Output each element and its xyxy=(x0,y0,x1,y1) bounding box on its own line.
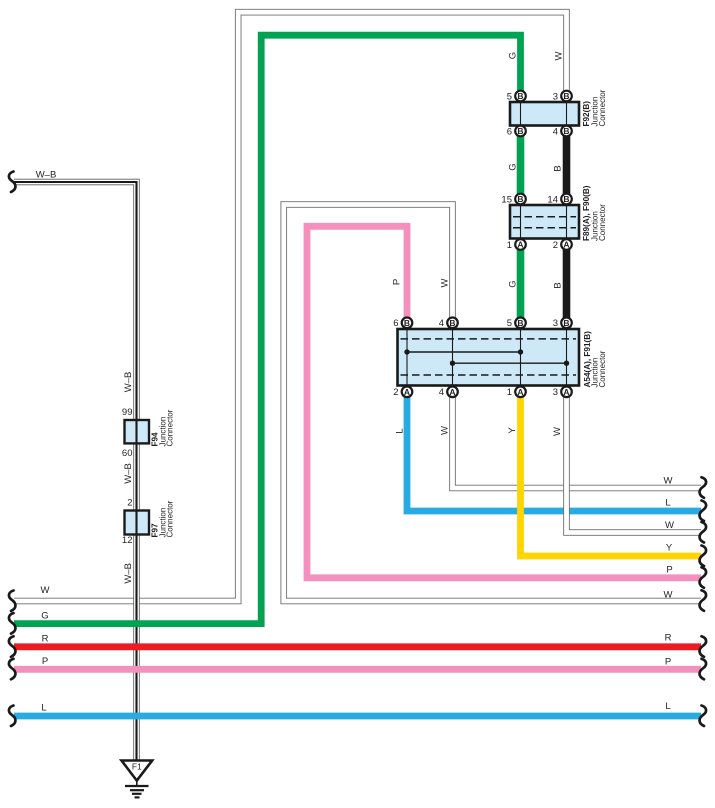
svg-text:W: W xyxy=(554,51,565,60)
break symbol L right 2 xyxy=(700,706,707,727)
svg-text:R: R xyxy=(42,634,49,645)
svg-text:L: L xyxy=(395,428,406,433)
svg-text:W: W xyxy=(440,426,451,435)
svg-text:B: B xyxy=(517,194,523,204)
svg-text:4: 4 xyxy=(553,126,558,137)
junction connector A54(A), F91(B) box xyxy=(398,323,580,392)
svg-text:L: L xyxy=(665,701,670,712)
svg-text:G: G xyxy=(508,163,519,170)
wire W-B white-black: left edge to F1 ground (gray outline + white core) xyxy=(14,182,137,760)
svg-text:L: L xyxy=(41,703,46,714)
svg-text:Connector: Connector xyxy=(598,204,607,241)
svg-text:12: 12 xyxy=(122,535,133,546)
svg-text:B: B xyxy=(449,318,455,328)
wire L blue: left edge to right edge xyxy=(14,713,701,720)
svg-text:2: 2 xyxy=(553,240,558,251)
svg-text:W: W xyxy=(664,590,673,601)
svg-text:W: W xyxy=(41,585,50,596)
F92 pin 5(B) xyxy=(507,91,526,103)
A54 pin 3(B) xyxy=(553,318,572,330)
label F97 Junction Connector xyxy=(151,500,175,537)
wire P pink: left edge to right edge xyxy=(14,666,701,673)
svg-text:B: B xyxy=(553,165,564,171)
svg-text:P: P xyxy=(392,279,403,285)
svg-text:G: G xyxy=(508,52,519,59)
svg-text:Y: Y xyxy=(666,543,673,554)
A54 pin 1(A) xyxy=(507,387,526,399)
svg-text:R: R xyxy=(665,633,672,644)
svg-text:G: G xyxy=(508,280,519,287)
svg-text:B: B xyxy=(517,91,523,101)
svg-text:W–B: W–B xyxy=(123,372,134,393)
wire R red: left edge to right edge xyxy=(14,643,701,650)
F92 pin 3(B) xyxy=(553,91,572,103)
svg-text:4: 4 xyxy=(439,318,444,329)
svg-text:A: A xyxy=(449,387,455,397)
wire B black: F92 pin 4(B) to F89 pin 14(B) xyxy=(563,131,571,199)
svg-text:B: B xyxy=(563,194,569,204)
wire G green: F89 pin 1(A) to A54 pin 5(B) xyxy=(517,245,525,323)
svg-text:99: 99 xyxy=(122,407,133,418)
wire W white: A54 pin 4(A) down, right to right edge xyxy=(453,392,702,488)
svg-text:B: B xyxy=(563,91,569,101)
ground F1 xyxy=(122,761,153,798)
label A54(A), F91(B) Junction Connector xyxy=(583,331,607,388)
svg-text:2: 2 xyxy=(127,498,132,509)
F89 pin 1(A) xyxy=(507,239,526,251)
break symbol P left xyxy=(9,659,16,680)
svg-text:A: A xyxy=(563,387,569,397)
wire G green: left edge, up, across top, down to F92 pin 5(B) xyxy=(14,35,521,623)
svg-text:Connector: Connector xyxy=(166,500,175,537)
F89 pin 15(B) xyxy=(501,194,525,206)
break symbol L left xyxy=(9,706,16,727)
svg-text:W: W xyxy=(664,476,673,487)
F92 pin 4(B) xyxy=(553,126,572,138)
svg-text:W: W xyxy=(665,520,674,531)
wire W white: from A54 pin 4(B) up, left, down, to right edge xyxy=(284,205,701,602)
label F89(A), F90(B) Junction Connector xyxy=(582,185,607,241)
wire B black: F89 pin 2(A) to A54 pin 3(B) xyxy=(563,245,571,323)
svg-text:Connector: Connector xyxy=(166,409,175,446)
wire W white: A54 pin 3(A) down, right to right edge xyxy=(567,392,702,533)
F92 pin 6(B) xyxy=(507,126,526,138)
svg-text:B: B xyxy=(404,318,410,328)
break symbol Y right xyxy=(700,546,707,567)
svg-text:G: G xyxy=(41,611,48,622)
label F94 Junction Connector xyxy=(151,409,175,446)
svg-text:W–B: W–B xyxy=(123,563,134,584)
svg-text:2: 2 xyxy=(393,387,398,398)
svg-text:3: 3 xyxy=(553,387,558,398)
wire W-B black stripe xyxy=(14,182,137,760)
svg-text:1: 1 xyxy=(507,240,512,251)
svg-text:B: B xyxy=(553,282,564,288)
svg-text:3: 3 xyxy=(553,91,558,102)
svg-text:A: A xyxy=(404,387,410,397)
svg-text:A: A xyxy=(517,387,523,397)
break symbol L right xyxy=(700,501,707,522)
svg-text:3: 3 xyxy=(553,318,558,329)
F89 pin 2(A) xyxy=(553,239,572,251)
break symbol W right 1 xyxy=(700,477,707,498)
svg-text:1: 1 xyxy=(507,387,512,398)
svg-text:W–B: W–B xyxy=(36,170,57,181)
label F92(B) Junction Connector xyxy=(582,89,607,126)
wire L blue: A54 pin 2(A) down, right to right edge xyxy=(407,392,701,511)
svg-text:P: P xyxy=(665,657,671,668)
svg-text:A: A xyxy=(563,240,569,250)
svg-text:14: 14 xyxy=(547,194,558,205)
junction connector F89(A), F90(B) box xyxy=(510,199,579,245)
svg-text:5: 5 xyxy=(507,91,512,102)
wire Y yellow: A54 pin 1(A) down, right to right edge xyxy=(521,392,702,556)
svg-text:B: B xyxy=(563,318,569,328)
junction connector F97 box xyxy=(125,511,150,535)
svg-text:L: L xyxy=(665,498,670,509)
wire W white: left edge to top to F92 pin 3(B) xyxy=(14,12,567,601)
svg-text:60: 60 xyxy=(122,448,133,459)
A54 pin 4(A) xyxy=(439,387,458,399)
svg-text:B: B xyxy=(517,318,523,328)
break symbol R left xyxy=(9,636,16,657)
A54 pin 3(A) xyxy=(553,387,572,399)
svg-text:B: B xyxy=(517,126,523,136)
svg-text:W–B: W–B xyxy=(123,463,134,484)
break symbol P right 2 xyxy=(700,659,707,680)
svg-text:Y: Y xyxy=(507,427,518,434)
svg-text:Connector: Connector xyxy=(598,350,607,387)
junction connector F94 box xyxy=(125,420,150,443)
break symbol G left xyxy=(9,613,16,634)
break symbol W right 3 xyxy=(700,590,707,611)
break symbol W-B left xyxy=(9,172,16,193)
svg-text:6: 6 xyxy=(507,126,512,137)
svg-text:15: 15 xyxy=(501,194,512,205)
svg-text:P: P xyxy=(666,565,672,576)
break symbol W right 2 xyxy=(700,522,707,543)
A54 pin 4(B) xyxy=(439,318,458,330)
svg-text:F1: F1 xyxy=(132,762,142,772)
break symbol W left xyxy=(9,591,16,612)
A54 pin 6(B) xyxy=(393,318,412,330)
svg-text:Connector: Connector xyxy=(598,89,607,126)
A54 pin 5(B) xyxy=(507,318,526,330)
junction connector F92(B) box xyxy=(510,96,579,131)
svg-text:A: A xyxy=(517,240,523,250)
svg-text:6: 6 xyxy=(393,318,398,329)
internal bus 4B-3B xyxy=(453,362,567,364)
svg-text:W: W xyxy=(440,278,451,287)
wire G green: F92 pin 6(B) to F89 pin 15(B) xyxy=(517,131,525,199)
break symbol P right xyxy=(700,567,707,588)
wire P pink: from A54 pin 6(B) up, left, down, right to right edge xyxy=(307,226,701,578)
F89 pin 14(B) xyxy=(547,194,571,206)
svg-text:W: W xyxy=(552,427,563,436)
svg-text:P: P xyxy=(42,656,48,667)
internal bus 6B-5B xyxy=(407,351,521,353)
A54 pin 2(A) xyxy=(393,387,412,399)
svg-text:B: B xyxy=(563,126,569,136)
break symbol R right xyxy=(700,636,707,657)
svg-text:4: 4 xyxy=(439,387,444,398)
svg-text:5: 5 xyxy=(507,318,512,329)
